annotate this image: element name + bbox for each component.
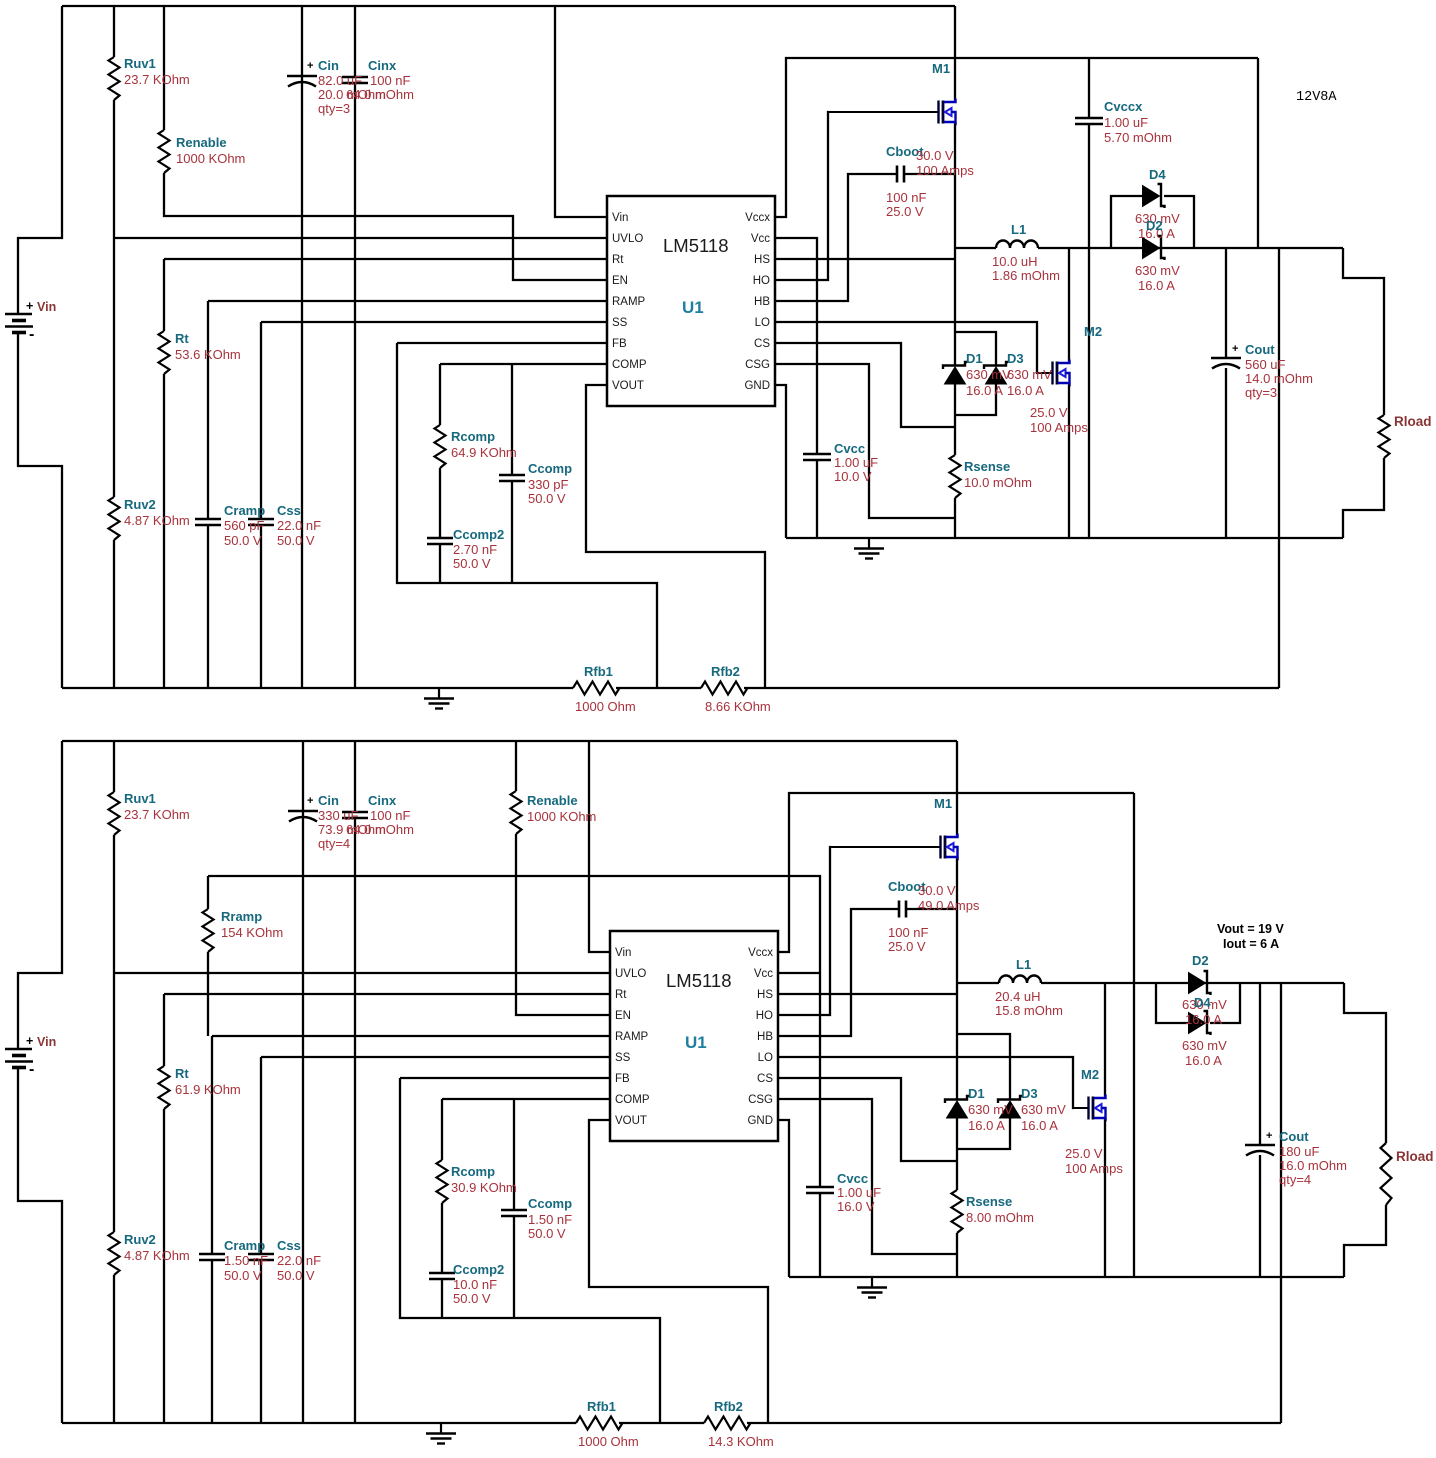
- svg-text:COMP: COMP: [612, 359, 647, 371]
- svg-text:+: +: [307, 795, 313, 807]
- resistor Rload: [1379, 415, 1390, 458]
- svg-text:Rcomp: Rcomp: [451, 1164, 495, 1179]
- svg-text:12V8A: 12V8A: [1296, 90, 1337, 105]
- wire output line: [1041, 982, 1344, 984]
- wire Rt net: [164, 994, 610, 1423]
- wire battery negative to ground rail: [18, 333, 62, 688]
- wire HO to M1 gate: [778, 847, 831, 1015]
- capacitor Cout: [1245, 1144, 1275, 1147]
- svg-text:-: -: [29, 326, 34, 343]
- svg-text:Rt: Rt: [615, 989, 627, 1001]
- capacitor Css: [248, 1254, 274, 1260]
- svg-text:D1: D1: [968, 1086, 985, 1101]
- svg-text:1000 Ohm: 1000 Ohm: [575, 699, 636, 714]
- svg-text:Renable: Renable: [176, 135, 227, 150]
- capacitor Cvccx: [1075, 118, 1103, 124]
- capacitor Cboot: [899, 901, 906, 918]
- svg-text:+: +: [1266, 1130, 1272, 1142]
- battery Vin: [5, 1048, 32, 1051]
- wire LO to M2 gate: [775, 322, 1038, 373]
- op-amp U1 LM5118 body: [610, 931, 778, 1141]
- svg-text:16.0 A: 16.0 A: [1021, 1118, 1058, 1133]
- ground: [871, 1277, 873, 1288]
- wire UVLO net: [114, 237, 607, 239]
- svg-text:16.0 mOhm: 16.0 mOhm: [1279, 1158, 1347, 1173]
- capacitor Cvcc: [806, 1187, 834, 1193]
- svg-text:1000 KOhm: 1000 KOhm: [176, 151, 245, 166]
- svg-text:15.8 mOhm: 15.8 mOhm: [995, 1003, 1063, 1018]
- diode D1: [945, 1096, 969, 1103]
- svg-text:4.87 KOhm: 4.87 KOhm: [124, 513, 190, 528]
- svg-text:Ccomp2: Ccomp2: [453, 527, 504, 542]
- wire D3 branch: [957, 1034, 1010, 1149]
- wire GND pin drop: [775, 385, 786, 538]
- wire bottom ground rail: [62, 687, 1279, 689]
- svg-text:Ruv1: Ruv1: [124, 791, 156, 806]
- capacitor Ccomp2: [429, 1273, 455, 1279]
- svg-text:VOUT: VOUT: [615, 1115, 647, 1127]
- wire Renable to EN: [164, 6, 607, 280]
- svg-text:Cin: Cin: [318, 793, 339, 808]
- capacitor Cin: [287, 75, 317, 78]
- svg-text:180 uF: 180 uF: [1279, 1144, 1320, 1159]
- svg-text:LO: LO: [755, 317, 770, 329]
- diode D1: [943, 362, 967, 369]
- wire Vin+ top rail: [62, 5, 955, 7]
- svg-text:50.0 V: 50.0 V: [528, 491, 566, 506]
- resistor Rt: [159, 331, 170, 374]
- capacitor Cvcc: [803, 454, 831, 460]
- svg-text:100 Amps: 100 Amps: [916, 163, 974, 178]
- svg-text:23.7 KOhm: 23.7 KOhm: [124, 72, 190, 87]
- svg-text:Cin: Cin: [318, 58, 339, 73]
- svg-text:Vin: Vin: [37, 1035, 56, 1049]
- svg-text:FB: FB: [612, 338, 627, 350]
- capacitor Cboot: [897, 166, 904, 183]
- wire battery branch left: [18, 6, 62, 313]
- svg-text:16.0 A: 16.0 A: [1185, 1053, 1222, 1068]
- wire D3 branch: [955, 332, 996, 415]
- svg-text:30.0 V: 30.0 V: [916, 148, 954, 163]
- wire switch node vertical: [954, 124, 956, 366]
- resistor Rcomp: [435, 425, 446, 468]
- transistor M2 drain: [1068, 248, 1070, 362]
- svg-text:630 mV: 630 mV: [1021, 1102, 1066, 1117]
- wire Rload branch: [1343, 248, 1384, 538]
- capacitor Cramp: [199, 1254, 225, 1260]
- svg-text:Ccomp: Ccomp: [528, 461, 572, 476]
- resistor Rcomp: [437, 1160, 448, 1203]
- resistor Ruv1: [109, 792, 120, 835]
- resistor Rt: [159, 1066, 170, 1109]
- wire power ground rail: [789, 1276, 1344, 1278]
- svg-text:qty=4: qty=4: [318, 836, 350, 851]
- svg-text:U1: U1: [682, 298, 704, 317]
- svg-text:82.0 uF: 82.0 uF: [318, 73, 362, 88]
- resistor Rload: [1381, 1143, 1392, 1205]
- svg-text:UVLO: UVLO: [615, 968, 646, 980]
- svg-text:M1: M1: [932, 61, 950, 76]
- svg-text:50.0 V: 50.0 V: [453, 556, 491, 571]
- svg-text:Cout: Cout: [1245, 342, 1275, 357]
- wire LO to M2 gate: [778, 1057, 1074, 1108]
- transistor M1: [828, 111, 939, 113]
- svg-text:22.0 nF: 22.0 nF: [277, 1253, 321, 1268]
- wire Rt net: [164, 259, 607, 688]
- svg-text:23.7 KOhm: 23.7 KOhm: [124, 807, 190, 822]
- svg-text:L1: L1: [1016, 957, 1031, 972]
- wire Ccomp branch: [513, 1099, 515, 1318]
- wire switch node vertical: [956, 859, 958, 1100]
- svg-text:Rfb1: Rfb1: [587, 1399, 616, 1414]
- svg-text:25.0 V: 25.0 V: [886, 204, 924, 219]
- resistor Ruv2: [109, 497, 120, 540]
- svg-text:Vin: Vin: [615, 947, 631, 959]
- svg-text:20.4 uH: 20.4 uH: [995, 989, 1041, 1004]
- capacitor Css: [248, 519, 274, 525]
- wire Vin+ top rail: [62, 740, 957, 742]
- svg-text:CS: CS: [757, 1073, 773, 1085]
- capacitor Cinx: [342, 812, 368, 818]
- transistor M2 drain: [1104, 983, 1106, 1097]
- capacitor Ccomp: [499, 475, 525, 481]
- svg-text:L1: L1: [1011, 222, 1026, 237]
- svg-text:+: +: [1232, 343, 1238, 355]
- wire bottom ground rail: [62, 1422, 1281, 1424]
- wire input cap Cin branch: [302, 741, 304, 1423]
- svg-text:M2: M2: [1081, 1067, 1099, 1082]
- svg-text:Rcomp: Rcomp: [451, 429, 495, 444]
- svg-text:14.0 mOhm: 14.0 mOhm: [1245, 371, 1313, 386]
- svg-text:100 Amps: 100 Amps: [1030, 420, 1088, 435]
- wire GND pin drop: [778, 1120, 789, 1277]
- svg-text:CS: CS: [754, 338, 770, 350]
- wire COMP net / Rcomp branch: [442, 1098, 610, 1100]
- svg-text:EN: EN: [612, 275, 628, 287]
- wire Ruv1/Ruv2 divider: [113, 6, 115, 688]
- svg-text:100 nF: 100 nF: [370, 808, 411, 823]
- transistor M2: [1037, 372, 1053, 374]
- wire Vin pin feed: [555, 6, 607, 217]
- svg-text:560 uF: 560 uF: [1245, 357, 1286, 372]
- svg-text:HS: HS: [754, 254, 770, 266]
- svg-text:64.0 mOhm: 64.0 mOhm: [346, 822, 414, 837]
- svg-text:100 nF: 100 nF: [888, 925, 929, 940]
- svg-text:2.70 nF: 2.70 nF: [453, 542, 497, 557]
- svg-text:100 Amps: 100 Amps: [1065, 1161, 1123, 1176]
- svg-text:16.0 A: 16.0 A: [1007, 383, 1044, 398]
- wire HB / Cboot branch: [778, 909, 957, 1036]
- svg-text:HB: HB: [757, 1031, 773, 1043]
- wire Cout branch: [1225, 248, 1227, 538]
- svg-text:630 mV: 630 mV: [1007, 367, 1052, 382]
- resistor Rsense: [952, 1190, 963, 1233]
- wire Cvccx branch: [1088, 58, 1090, 538]
- svg-text:+: +: [307, 60, 313, 72]
- svg-text:1.00 uF: 1.00 uF: [837, 1185, 881, 1200]
- svg-text:1.86 mOhm: 1.86 mOhm: [992, 268, 1060, 283]
- svg-text:Vccx: Vccx: [745, 212, 770, 224]
- svg-text:Iout = 6 A: Iout = 6 A: [1223, 937, 1279, 951]
- svg-text:Ruv1: Ruv1: [124, 56, 156, 71]
- svg-text:M1: M1: [934, 796, 952, 811]
- inductor L1: [996, 241, 1038, 248]
- svg-text:Css: Css: [277, 503, 301, 518]
- wire Rsense to power rail: [956, 1233, 958, 1277]
- ground: [440, 1423, 442, 1434]
- wire HB / Cboot branch: [775, 174, 955, 301]
- svg-text:330 uF: 330 uF: [318, 808, 359, 823]
- wire VOUT sense: [589, 1120, 768, 1423]
- svg-text:100 nF: 100 nF: [370, 73, 411, 88]
- svg-text:Vout = 19 V: Vout = 19 V: [1217, 922, 1284, 936]
- svg-text:D2: D2: [1146, 218, 1163, 233]
- svg-text:53.6 KOhm: 53.6 KOhm: [175, 347, 241, 362]
- capacitor Cout: [1211, 357, 1241, 360]
- wire output negative drop: [1280, 983, 1282, 1423]
- svg-text:UVLO: UVLO: [612, 233, 643, 245]
- svg-text:VOUT: VOUT: [612, 380, 644, 392]
- svg-text:GND: GND: [747, 1115, 773, 1127]
- svg-text:50.0 V: 50.0 V: [453, 1291, 491, 1306]
- svg-text:Cvcc: Cvcc: [834, 441, 865, 456]
- svg-text:LM5118: LM5118: [663, 235, 728, 256]
- svg-text:25.0 V: 25.0 V: [888, 939, 926, 954]
- svg-text:D2: D2: [1192, 953, 1209, 968]
- svg-text:630 mV: 630 mV: [966, 367, 1011, 382]
- svg-text:SS: SS: [615, 1052, 631, 1064]
- svg-text:LM5118: LM5118: [666, 970, 731, 991]
- wire Vccx net: [775, 58, 1258, 217]
- wire M2 source to power rail: [1068, 385, 1070, 539]
- svg-text:+: +: [26, 1034, 33, 1048]
- capacitor Cin: [288, 810, 318, 813]
- svg-text:M2: M2: [1084, 324, 1102, 339]
- svg-text:Ruv2: Ruv2: [124, 497, 156, 512]
- svg-text:EN: EN: [615, 1010, 631, 1022]
- op-amp U1 LM5118 body: [607, 196, 775, 406]
- svg-text:64.9 KOhm: 64.9 KOhm: [451, 445, 517, 460]
- svg-text:LO: LO: [758, 1052, 773, 1064]
- wire M2 source to power rail: [1104, 1120, 1106, 1278]
- wire input cap Cinx branch: [354, 6, 356, 688]
- svg-text:+: +: [26, 299, 33, 313]
- resistor Rramp: [203, 909, 214, 952]
- svg-text:Ccomp: Ccomp: [528, 1196, 572, 1211]
- svg-text:Rsense: Rsense: [964, 459, 1010, 474]
- svg-text:Vin: Vin: [37, 300, 56, 314]
- wire input cap Cin branch: [301, 6, 303, 688]
- wire D bottom to Rsense: [954, 384, 956, 456]
- svg-text:16.0 V: 16.0 V: [837, 1199, 875, 1214]
- svg-text:-: -: [29, 1061, 34, 1078]
- resistor Renable: [159, 130, 170, 173]
- resistor Rfb1: [576, 1417, 623, 1430]
- svg-text:16.0 A: 16.0 A: [966, 383, 1003, 398]
- svg-text:Cinx: Cinx: [368, 793, 397, 808]
- resistor Ruv1: [109, 57, 120, 100]
- svg-text:61.9 KOhm: 61.9 KOhm: [175, 1082, 241, 1097]
- svg-text:16.0 A: 16.0 A: [1138, 278, 1175, 293]
- svg-text:25.0 V: 25.0 V: [1065, 1146, 1103, 1161]
- svg-text:CSG: CSG: [745, 359, 770, 371]
- ground: [438, 688, 440, 699]
- wire RAMP net / capacitor Cramp branch: [212, 1036, 610, 1423]
- svg-text:U1: U1: [685, 1033, 707, 1052]
- wire COMP net / Rcomp branch: [440, 363, 607, 365]
- svg-text:D3: D3: [1021, 1086, 1038, 1101]
- svg-text:330 pF: 330 pF: [528, 477, 569, 492]
- svg-text:Cvcc: Cvcc: [837, 1171, 868, 1186]
- svg-text:Rt: Rt: [175, 331, 189, 346]
- diode D2: [1204, 971, 1211, 995]
- svg-text:630 mV: 630 mV: [1135, 263, 1180, 278]
- wire HS net: [778, 993, 957, 995]
- svg-text:16.0 A: 16.0 A: [1185, 1012, 1222, 1027]
- wire Rramp from Vcc node: [208, 876, 820, 1036]
- diode D2: [1158, 236, 1165, 260]
- wire RAMP net / capacitor Cramp branch: [208, 301, 607, 688]
- svg-text:Cramp: Cramp: [224, 1238, 265, 1253]
- resistor Rfb2: [701, 682, 748, 695]
- diode D3: [998, 1096, 1022, 1103]
- svg-text:50.0 V: 50.0 V: [528, 1226, 566, 1241]
- transistor M1 drain from rail: [956, 741, 958, 836]
- svg-text:25.0 V: 25.0 V: [1030, 405, 1068, 420]
- svg-text:10.0 nF: 10.0 nF: [453, 1277, 497, 1292]
- wire SS net / capacitor Css branch: [261, 1057, 610, 1423]
- svg-text:Vcc: Vcc: [754, 968, 773, 980]
- svg-text:Rfb2: Rfb2: [714, 1399, 743, 1414]
- svg-text:50.0 V: 50.0 V: [224, 533, 262, 548]
- wire VOUT sense: [586, 385, 765, 688]
- svg-text:1000 Ohm: 1000 Ohm: [578, 1434, 639, 1449]
- resistor Rfb1: [573, 682, 620, 695]
- svg-text:SS: SS: [612, 317, 628, 329]
- wire CSG net: [775, 364, 955, 518]
- wire Rload branch: [1344, 983, 1386, 1277]
- resistor Rsense: [950, 455, 961, 498]
- wire Rsense to power rail: [954, 498, 956, 538]
- svg-text:RAMP: RAMP: [615, 1031, 649, 1043]
- wire CSG net: [778, 1099, 957, 1254]
- svg-text:HO: HO: [756, 1010, 773, 1022]
- wire input cap Cinx branch: [354, 741, 356, 1423]
- wire Ccomp branch: [511, 364, 513, 583]
- diode D4: [1158, 184, 1165, 208]
- svg-text:10.0 mOhm: 10.0 mOhm: [964, 475, 1032, 490]
- svg-text:Rramp: Rramp: [221, 909, 262, 924]
- resistor Ruv2: [109, 1232, 120, 1275]
- capacitor Cramp: [195, 519, 221, 525]
- svg-text:10.0 V: 10.0 V: [834, 469, 872, 484]
- svg-text:RAMP: RAMP: [612, 296, 646, 308]
- wire battery branch left: [18, 741, 62, 1048]
- wire HO to M1 gate: [775, 112, 829, 280]
- svg-text:Cinx: Cinx: [368, 58, 397, 73]
- svg-text:Ccomp2: Ccomp2: [453, 1262, 504, 1277]
- svg-text:Ruv2: Ruv2: [124, 1232, 156, 1247]
- svg-text:Renable: Renable: [527, 793, 578, 808]
- svg-text:qty=3: qty=3: [1245, 385, 1277, 400]
- svg-text:64.0 mOhm: 64.0 mOhm: [346, 87, 414, 102]
- resistor Renable: [511, 791, 522, 834]
- wire Ruv1/Ruv2 divider: [113, 741, 115, 1423]
- svg-text:10.0 uH: 10.0 uH: [992, 254, 1038, 269]
- svg-text:30.0 V: 30.0 V: [918, 883, 956, 898]
- svg-text:Cout: Cout: [1279, 1129, 1309, 1144]
- svg-text:14.3 KOhm: 14.3 KOhm: [708, 1434, 774, 1449]
- svg-text:4.87 KOhm: 4.87 KOhm: [124, 1248, 190, 1263]
- wire Vcc net / Cvcc branch: [778, 973, 820, 1277]
- wire battery negative to ground rail: [18, 1068, 62, 1423]
- svg-text:D3: D3: [1007, 351, 1024, 366]
- wire Vccx rail drop: [1257, 58, 1259, 248]
- wire switch to L1: [955, 247, 996, 249]
- wire SS net / capacitor Css branch: [261, 322, 607, 688]
- svg-text:560 pF: 560 pF: [224, 518, 265, 533]
- svg-text:154 KOhm: 154 KOhm: [221, 925, 283, 940]
- svg-text:Vin: Vin: [612, 212, 628, 224]
- svg-text:Rt: Rt: [175, 1066, 189, 1081]
- ground: [868, 538, 870, 549]
- wire Renable to EN: [516, 741, 610, 1015]
- svg-text:8.66 KOhm: 8.66 KOhm: [705, 699, 771, 714]
- svg-text:1.50 nF: 1.50 nF: [528, 1212, 572, 1227]
- wire D4 bypass branch: [1111, 196, 1194, 248]
- capacitor Cinx: [342, 77, 368, 83]
- svg-text:Rfb2: Rfb2: [711, 664, 740, 679]
- wire Vcc net / Cvcc branch: [775, 238, 817, 538]
- svg-text:Cvccx: Cvccx: [1104, 99, 1143, 114]
- svg-text:100 nF: 100 nF: [886, 190, 927, 205]
- svg-text:qty=4: qty=4: [1279, 1172, 1311, 1187]
- wire HS net: [775, 258, 955, 260]
- svg-text:Rload: Rload: [1396, 1149, 1434, 1164]
- wire CS net: [775, 343, 955, 427]
- wire Vccx rail drop: [1133, 793, 1135, 1277]
- diode D4: [1204, 1011, 1211, 1035]
- svg-text:Css: Css: [277, 1238, 301, 1253]
- svg-text:Rsense: Rsense: [966, 1194, 1012, 1209]
- battery Vin: [5, 313, 32, 316]
- svg-text:Rfb1: Rfb1: [584, 664, 613, 679]
- svg-text:HS: HS: [757, 989, 773, 1001]
- svg-text:1.50 nF: 1.50 nF: [224, 1253, 268, 1268]
- svg-text:CSG: CSG: [748, 1094, 773, 1106]
- wire power ground rail: [786, 537, 1343, 539]
- diode D3: [984, 362, 1008, 369]
- svg-text:D4: D4: [1149, 167, 1166, 182]
- svg-text:50.0 V: 50.0 V: [277, 1268, 315, 1283]
- svg-text:HO: HO: [753, 275, 770, 287]
- wire switch to L1: [957, 982, 999, 984]
- wire Vccx net: [778, 793, 1134, 952]
- svg-text:8.00 mOhm: 8.00 mOhm: [966, 1210, 1034, 1225]
- capacitor Ccomp: [501, 1210, 527, 1216]
- svg-text:30.9 KOhm: 30.9 KOhm: [451, 1180, 517, 1195]
- svg-text:FB: FB: [615, 1073, 630, 1085]
- svg-text:50.0 V: 50.0 V: [224, 1268, 262, 1283]
- svg-text:630 mV: 630 mV: [1182, 1038, 1227, 1053]
- svg-text:Vcc: Vcc: [751, 233, 770, 245]
- svg-text:Rload: Rload: [1394, 414, 1432, 429]
- svg-text:Rt: Rt: [612, 254, 624, 266]
- wire FB net: [397, 343, 657, 688]
- wire D bottom to Rsense: [956, 1118, 958, 1191]
- inductor L1: [999, 976, 1041, 983]
- svg-text:COMP: COMP: [615, 1094, 650, 1106]
